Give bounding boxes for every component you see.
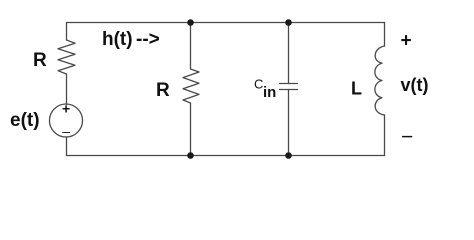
wire middle branch bottom lead: [190, 103, 192, 156]
svg-text:-->: -->: [136, 29, 160, 50]
svg-text:v(t): v(t): [401, 75, 429, 95]
capacitor Cin top plate: [280, 83, 298, 85]
node junction dot bottom-middle: [187, 152, 194, 159]
wire right branch top lead: [384, 23, 386, 47]
resistor R1 (left, zigzag): [58, 40, 75, 74]
svg-text:L: L: [351, 79, 362, 99]
resistor R2 (middle, zigzag): [183, 69, 199, 103]
capacitor Cin bottom plate: [280, 89, 298, 91]
svg-text:in: in: [263, 84, 276, 101]
svg-text:C: C: [254, 77, 263, 92]
svg-text:e(t): e(t): [10, 110, 40, 131]
wire lead resistor to source: [66, 74, 68, 105]
svg-text:−: −: [401, 126, 413, 149]
node junction dot top-capacitor: [285, 19, 292, 26]
svg-text:+: +: [401, 31, 412, 52]
wire capacitor branch top lead: [288, 23, 290, 84]
wire top rail: [67, 22, 385, 24]
wire right branch bottom lead: [384, 115, 386, 156]
svg-text:h(t): h(t): [102, 29, 133, 50]
wire capacitor branch bottom lead: [288, 90, 290, 156]
svg-text:R: R: [156, 80, 170, 101]
svg-text:R: R: [33, 50, 47, 71]
wire left branch top lead: [66, 23, 68, 41]
svg-text:+: +: [62, 101, 70, 117]
node junction dot top-middle: [187, 19, 194, 26]
wire source to bottom rail: [66, 137, 68, 156]
wire middle branch top lead: [190, 23, 192, 70]
voltage source E1 circle: [50, 104, 83, 137]
inductor L1 coil: [375, 46, 385, 115]
svg-text:–: –: [62, 123, 70, 139]
node junction dot bottom-capacitor: [285, 152, 292, 159]
wire bottom rail: [67, 155, 385, 157]
